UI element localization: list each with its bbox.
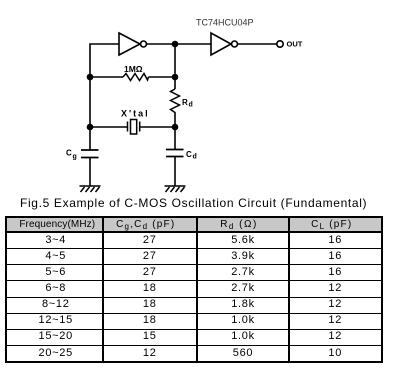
label X'tal <box>121 109 150 119</box>
svg-text:R: R <box>182 98 188 107</box>
wire input from feedback rail to inverter U1a <box>90 44 119 150</box>
node junction crystal right <box>172 124 179 131</box>
table of oscillation parameters <box>5 216 383 363</box>
svg-text:d: d <box>189 102 193 109</box>
crystal X1 <box>128 120 140 135</box>
wire Rd bottom lead <box>174 113 176 127</box>
capacitor Cd <box>166 150 184 157</box>
wire 1M resistor left lead <box>90 76 123 78</box>
svg-text:C: C <box>186 150 192 159</box>
label Cg <box>66 149 77 161</box>
wire 1M resistor right lead <box>149 76 176 78</box>
svg-text:X'tal: X'tal <box>121 109 150 119</box>
svg-text:1MΩ: 1MΩ <box>124 64 143 74</box>
ground left <box>80 186 101 192</box>
svg-text:TC74HCU04P: TC74HCU04P <box>196 18 254 28</box>
resistor R1 1M ohm <box>123 74 149 81</box>
op-amp U1a (inverter TC74HCU04P stage 1) <box>119 33 147 55</box>
label Cd <box>186 150 197 161</box>
wire right rail to ground <box>174 157 176 187</box>
ground right <box>165 186 186 192</box>
resistor Rd vertical <box>171 89 180 113</box>
svg-text:g: g <box>73 154 77 161</box>
node junction crystal left <box>87 124 94 131</box>
wire to output terminal <box>238 43 277 45</box>
svg-text:OUT: OUT <box>287 40 303 49</box>
node junction left of 1M <box>87 74 94 81</box>
label TC74HCU04P <box>196 18 254 28</box>
wire right rail from junction to Rd <box>174 44 176 89</box>
wire crystal right lead <box>140 126 175 128</box>
svg-text:d: d <box>193 154 197 161</box>
capacitor Cg <box>81 150 99 158</box>
caption <box>20 196 367 210</box>
node OUT terminal <box>277 41 283 47</box>
svg-text:C: C <box>66 149 72 158</box>
node junction right of 1M <box>172 74 179 81</box>
label Rd <box>182 98 193 109</box>
wire right rail to Cd <box>174 127 176 150</box>
op-amp U1b (inverter TC74HCU04P stage 2) <box>211 33 238 55</box>
label 1M ohm <box>124 64 143 74</box>
wire between inverters <box>147 43 211 45</box>
wire left rail to ground <box>89 158 91 187</box>
label OUT <box>287 40 303 49</box>
wire crystal left lead <box>90 126 128 128</box>
node junction at inverter2 input <box>172 41 179 48</box>
